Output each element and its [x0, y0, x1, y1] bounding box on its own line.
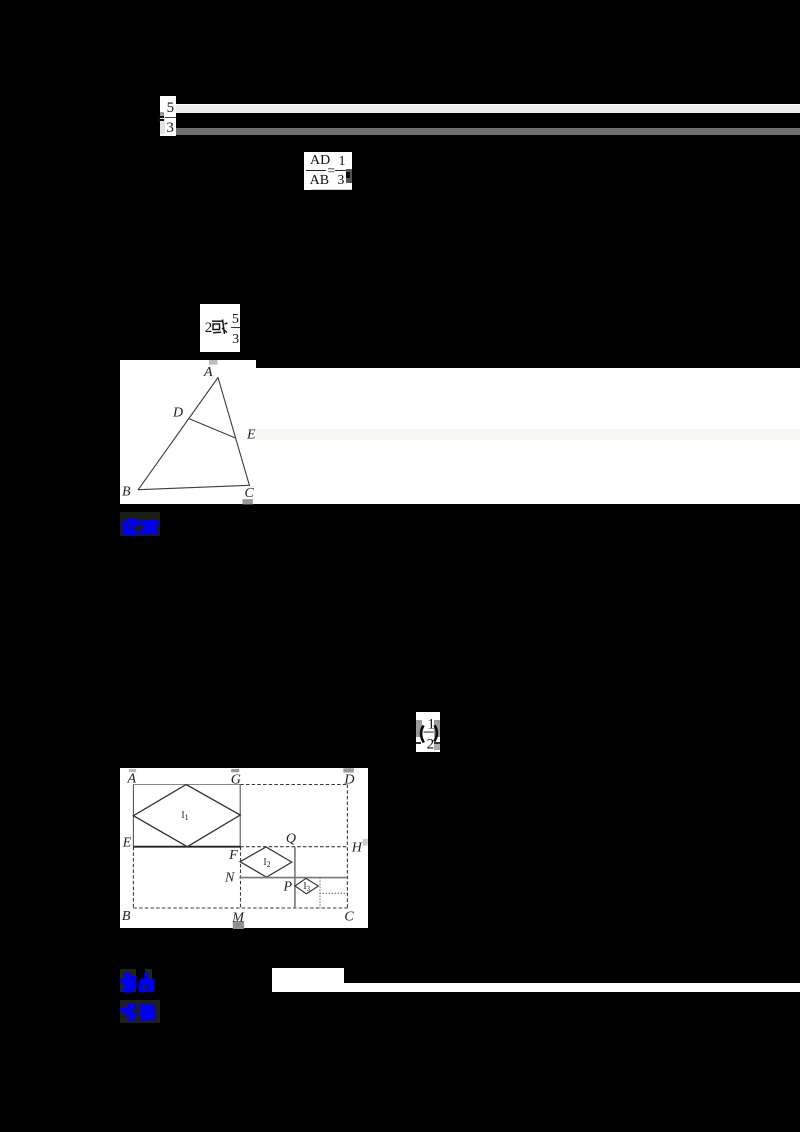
svg-text:l3: l3 — [303, 880, 310, 893]
svg-text:D: D — [343, 772, 354, 787]
svg-text:P: P — [282, 879, 292, 894]
gray strip — [176, 128, 800, 135]
rhombus l1 — [133, 784, 240, 846]
svg-text:N: N — [224, 870, 235, 885]
rhombus l2 — [240, 847, 292, 877]
glyph 或 — [211, 319, 228, 335]
svg-text:B: B — [122, 908, 131, 923]
white strip to right edge — [344, 983, 800, 992]
svg-text:G: G — [231, 772, 241, 787]
(1/2) equation box — [416, 712, 440, 752]
svg-text:C: C — [244, 486, 254, 501]
svg-text:B: B — [122, 484, 131, 499]
solid rect AGFE — [133, 783, 240, 785]
figure 2 white box — [120, 768, 368, 928]
svg-text:H: H — [351, 840, 363, 855]
equation AD/AB = 1/3 — [304, 152, 353, 191]
svg-text:l2: l2 — [263, 856, 270, 869]
svg-text:A: A — [126, 771, 136, 786]
dotted lines — [320, 877, 348, 907]
svg-text:1: 1 — [427, 716, 435, 732]
blue label 1 — [120, 512, 160, 536]
white band right of triangle — [256, 368, 800, 504]
white box (blank equation) — [272, 968, 344, 992]
equation =5/3 white box — [160, 96, 176, 136]
rhombus l3 — [295, 878, 318, 893]
svg-text:Q: Q — [286, 831, 296, 846]
triangle drawing — [120, 360, 257, 505]
svg-text:E: E — [246, 427, 256, 442]
svg-text:D: D — [172, 405, 183, 420]
svg-text:A: A — [203, 364, 213, 379]
solid cross lines — [294, 847, 296, 908]
svg-text:M: M — [231, 910, 245, 925]
triangle figure white box — [120, 360, 256, 504]
light strip — [176, 104, 800, 114]
blue label 3 (专题) — [120, 1000, 160, 1023]
blue label 2 (考点) — [120, 969, 135, 992]
svg-text:2: 2 — [426, 736, 434, 752]
faint line in band — [256, 429, 800, 440]
equation 2或5/3 — [200, 304, 240, 352]
gray artifacts — [129, 769, 136, 772]
labels — [122, 771, 363, 925]
svg-text:F: F — [228, 848, 238, 863]
svg-text:C: C — [344, 909, 354, 924]
svg-text:l1: l1 — [181, 809, 188, 822]
dashed outer rectangle — [133, 784, 347, 908]
svg-text:E: E — [122, 835, 132, 850]
